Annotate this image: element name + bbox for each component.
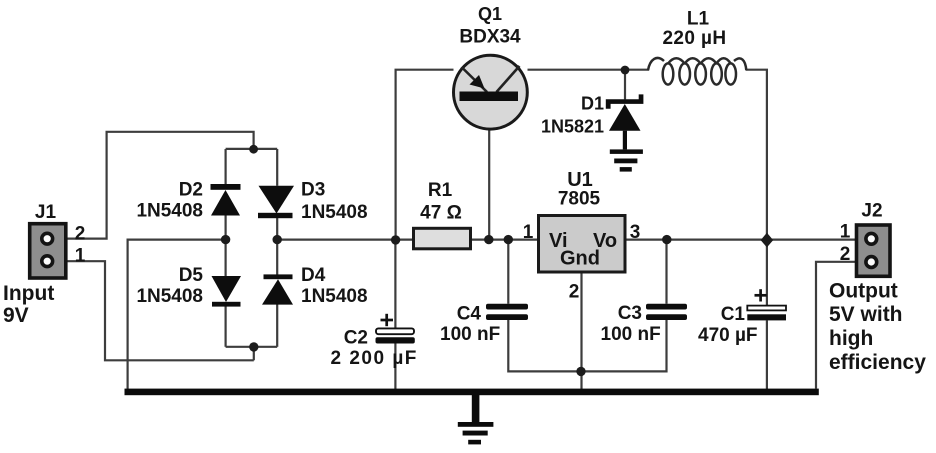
svg-text:1N5408: 1N5408 (136, 201, 203, 222)
svg-text:2: 2 (75, 224, 86, 245)
svg-text:2: 2 (840, 244, 851, 265)
capacitor C3 (646, 304, 687, 320)
wire C2 to ground rail (394, 344, 396, 390)
connector J2 (857, 225, 891, 276)
svg-text:5V with: 5V with (829, 303, 903, 326)
node D1 top (621, 66, 630, 75)
svg-text:D4: D4 (301, 265, 326, 286)
svg-text:Input: Input (3, 282, 54, 305)
wire bridge bottom bar (226, 346, 278, 348)
capacitor C1 (747, 289, 786, 320)
wire node to C3 (665, 240, 667, 304)
svg-text:Q1: Q1 (478, 4, 502, 24)
wire top node to D1 (624, 70, 626, 100)
resistor R1 (414, 228, 471, 249)
wire U1 pin3 to J2 pin1 (625, 239, 857, 241)
svg-text:C3: C3 (618, 303, 642, 324)
wire riser input node to Q1 emitter (396, 70, 454, 240)
node output (diamond) (761, 233, 774, 248)
svg-text:100 nF: 100 nF (440, 324, 500, 345)
wire J1 pin1 to bridge bottom (66, 261, 254, 360)
node C3 tap (662, 235, 671, 244)
svg-text:Output: Output (829, 280, 898, 303)
wire node to C4 (507, 240, 509, 304)
wire C1 to ground rail (766, 320, 768, 389)
svg-text:470 µF: 470 µF (698, 325, 758, 346)
wire L1 to output node (746, 70, 767, 240)
svg-text:L1: L1 (687, 9, 710, 30)
svg-text:1: 1 (523, 222, 534, 243)
capacitor C4 (486, 304, 528, 320)
svg-text:J2: J2 (861, 201, 882, 222)
svg-text:2: 2 (569, 282, 580, 303)
svg-text:3: 3 (630, 222, 641, 243)
svg-text:D5: D5 (179, 265, 204, 286)
node bridge mid-right (273, 235, 282, 244)
wire left branch mid node to D5 (225, 240, 227, 277)
wire J1 pin2 to bridge top (66, 132, 254, 239)
wire J2 pin2 to ground rail (816, 262, 857, 389)
svg-text:BDX34: BDX34 (459, 27, 521, 48)
node bridge mid-left (221, 235, 230, 244)
wire right branch D4 to bottom bar (276, 304, 278, 346)
wire bridge mid-left to ground rail (128, 240, 226, 390)
wire R1 to U1 (471, 239, 539, 241)
wire left branch D2 to mid node (225, 215, 227, 239)
svg-text:C2: C2 (344, 328, 368, 349)
inductor L1 (648, 58, 746, 85)
svg-text:high: high (829, 327, 873, 350)
node bridge top (249, 145, 258, 154)
svg-text:7805: 7805 (558, 189, 601, 210)
diode D1 (schottky) (606, 94, 644, 171)
svg-text:2 200 µF: 2 200 µF (331, 348, 418, 369)
svg-text:9V: 9V (3, 304, 29, 327)
transistor Q1 (454, 55, 528, 129)
regulator U1 box (539, 216, 626, 273)
svg-text:D1: D1 (581, 94, 604, 114)
wire U1 pin2 to ground rail (580, 272, 582, 389)
wire Q1 base lead (488, 102, 490, 240)
wire main rail bridge to R1 (277, 239, 413, 241)
wire output node to C1 (766, 240, 768, 306)
svg-text:1N5408: 1N5408 (136, 286, 203, 307)
svg-text:R1: R1 (428, 180, 453, 201)
wire Q1 collector to L1 (528, 69, 650, 71)
svg-text:1N5821: 1N5821 (541, 117, 604, 137)
wire left branch upper (to D2) (225, 149, 227, 185)
svg-text:C1: C1 (721, 304, 746, 325)
svg-text:J1: J1 (35, 202, 57, 223)
connector J1 (30, 224, 66, 278)
svg-text:D3: D3 (301, 180, 325, 201)
wire C4 bottom to gnd junction (508, 320, 666, 371)
wire right branch mid node to D4 (276, 240, 278, 275)
ground rail (125, 389, 819, 396)
wire bridge top bar (226, 148, 278, 150)
wire right branch D3 to mid node (276, 218, 278, 240)
diode D5 (212, 276, 242, 307)
wire right branch top to D3 (276, 149, 278, 186)
node gnd junction (576, 367, 585, 376)
diode D2 (211, 184, 241, 216)
svg-text:1: 1 (840, 222, 851, 243)
wire stub bottom node (253, 347, 255, 361)
svg-text:1N5408: 1N5408 (301, 286, 368, 307)
svg-text:Gnd: Gnd (560, 248, 600, 270)
node C4 tap (504, 235, 513, 244)
svg-text:efficiency: efficiency (829, 351, 926, 374)
wire node to C2 (394, 240, 396, 329)
ground symbol (458, 394, 494, 444)
svg-text:D2: D2 (179, 180, 203, 201)
diode D3 (258, 186, 294, 218)
wire left branch D5 to bottom bar (225, 306, 227, 347)
svg-text:1: 1 (75, 246, 86, 267)
diode D4 (262, 274, 293, 304)
svg-text:1N5408: 1N5408 (301, 202, 368, 223)
svg-text:47 Ω: 47 Ω (420, 203, 462, 224)
svg-text:C4: C4 (457, 304, 482, 325)
svg-text:220 µH: 220 µH (662, 28, 726, 49)
capacitor C2 (376, 314, 415, 344)
svg-text:100 nF: 100 nF (601, 324, 661, 345)
node input rail (391, 235, 400, 244)
node bridge bottom (249, 342, 258, 351)
node Q1 base (484, 235, 493, 244)
